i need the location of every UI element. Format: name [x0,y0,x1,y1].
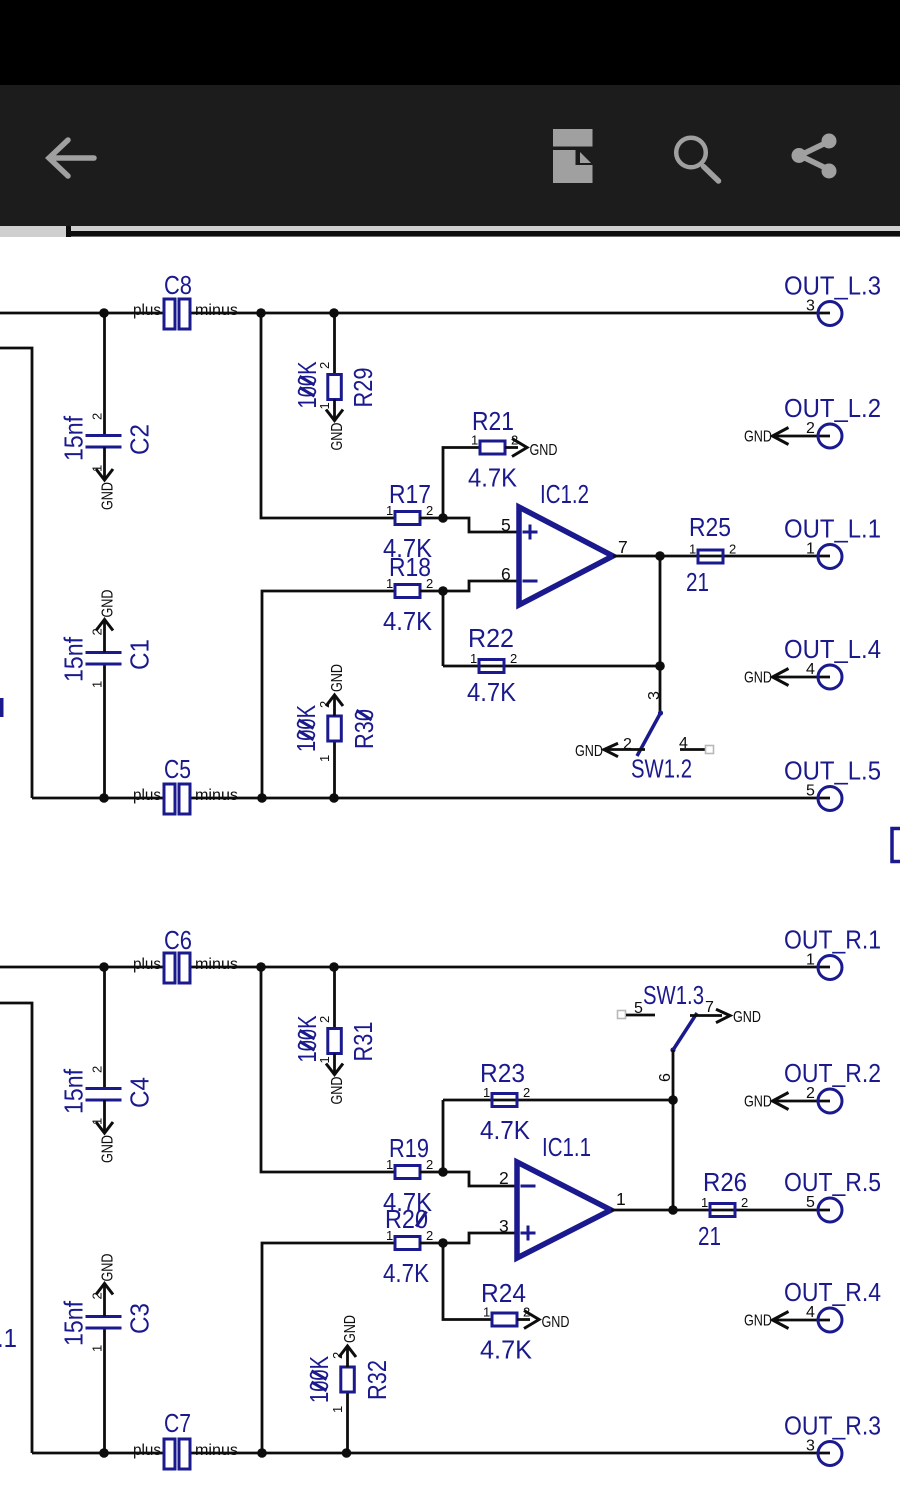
svg-text:GND: GND [542,1314,570,1331]
wire op-amp out to pad R.5 [611,1209,830,1212]
resistor R24 [480,1278,533,1365]
svg-text:1: 1 [689,542,696,557]
node junction R31/rail3 [329,962,339,972]
svg-text:2: 2 [729,542,736,557]
resistor R29 [292,313,378,451]
svg-text:1: 1 [483,1085,490,1100]
svg-text:GND: GND [100,1254,117,1282]
svg-text:plus: plus [133,956,161,973]
resistor R23 [480,1058,531,1145]
svg-text:R26: R26 [703,1167,747,1197]
resistor R26 [698,1167,748,1251]
svg-text:.1: .1 [0,1323,17,1353]
node junction C2/rail1 [99,308,109,318]
svg-text:100K: 100K [304,1356,334,1403]
svg-text:OUT_R.4: OUT_R.4 [784,1277,881,1307]
pages icon [553,129,593,183]
switch SW1.3 [618,980,762,1053]
svg-text:GND: GND [733,1009,761,1026]
wire R20 branch from rail4 [262,1243,395,1453]
svg-text:3: 3 [806,298,815,315]
svg-text:C4: C4 [125,1077,155,1108]
wire R17 to op-amp pin5 [420,518,519,532]
node junction branch/rail2 [257,793,267,803]
svg-text:5: 5 [634,1000,643,1017]
node junction R32/rail4 [342,1448,352,1458]
node junction C4/rail3 [99,962,109,972]
capacitor C7 [133,1408,238,1469]
svg-text:R24: R24 [481,1278,526,1308]
svg-text:1: 1 [483,1305,490,1320]
resistor R20 [383,1204,433,1288]
svg-text:3: 3 [646,691,663,700]
pad OUT_R.3 [784,1411,881,1466]
capacitor C2 [59,313,155,510]
wire R23 row [443,1099,673,1102]
svg-text:OUT_L.3: OUT_L.3 [784,271,881,301]
svg-text:2: 2 [90,1292,105,1299]
svg-text:GND: GND [100,590,117,618]
svg-text:IC1.1: IC1.1 [542,1132,591,1162]
svg-text:1: 1 [330,1406,345,1413]
toolbar [0,85,900,226]
wire top rail OUT_R.1 [0,966,830,969]
svg-text:2: 2 [806,420,815,437]
svg-text:C2: C2 [125,424,155,455]
wire R22 row [443,665,660,668]
svg-text:R18: R18 [389,552,431,582]
svg-text:2: 2 [426,1228,433,1243]
svg-text:GND: GND [744,1094,772,1111]
svg-text:15nf: 15nf [59,636,89,682]
svg-text:7: 7 [705,999,714,1016]
pad OUT_L.5 [784,756,881,811]
resistor R32 [304,1315,392,1453]
wire top rail OUT_L.3 [0,312,830,315]
resistor R18 [383,552,433,636]
pad OUT_R.4 [744,1277,881,1332]
svg-text:4.7K: 4.7K [383,1258,430,1288]
capacitor C3 [59,1254,155,1454]
svg-text:3: 3 [499,1216,509,1236]
svg-text:plus: plus [133,787,161,804]
svg-text:R31: R31 [348,1022,378,1062]
svg-text:R32: R32 [362,1360,392,1400]
svg-text:1: 1 [806,952,815,969]
svg-text:OUT_R.1: OUT_R.1 [784,925,881,955]
svg-text:1: 1 [386,503,393,518]
svg-text:2: 2 [90,628,105,635]
pad OUT_L.2 [744,393,881,448]
op-amp IC1.1 [499,1132,626,1258]
svg-text:4: 4 [806,661,815,678]
capacitor C5 [133,754,238,814]
node junction R23 right [668,1095,678,1105]
wire R18 branch from rail2 [262,591,395,798]
node junction R29/rail1 [329,308,339,318]
svg-text:4.7K: 4.7K [480,1115,531,1145]
svg-text:2: 2 [90,1066,105,1073]
svg-text:15nf: 15nf [59,1068,89,1114]
svg-text:C3: C3 [125,1303,155,1334]
pad OUT_R.1 [784,925,881,980]
svg-text:15nf: 15nf [59,1300,89,1346]
node junction C1/rail2 [99,793,109,803]
op-amp IC1.2 [501,479,628,605]
wire SW1.3 to output node [672,1050,675,1210]
svg-text:15nf: 15nf [59,415,89,461]
node junction R22/SW [655,661,665,671]
resistor R21 [468,406,518,493]
node junction R17/R21 [438,513,448,523]
resistor R17 [383,479,433,563]
svg-text:4.7K: 4.7K [383,606,433,636]
schematic frame top border [68,231,900,237]
svg-text:1: 1 [386,576,393,591]
svg-text:GND: GND [744,670,772,687]
search icon [676,138,718,181]
svg-text:2: 2 [623,736,632,753]
svg-text:4.7K: 4.7K [468,463,518,493]
svg-text:OUT_L.4: OUT_L.4 [784,634,881,664]
svg-text:1: 1 [90,1118,105,1125]
resistor R31 [292,967,378,1105]
pad OUT_R.5 [784,1167,881,1222]
svg-text:7: 7 [618,537,628,557]
svg-text:OUT_R.2: OUT_R.2 [784,1058,881,1088]
svg-text:OUT_R.5: OUT_R.5 [784,1167,881,1197]
pad OUT_L.4 [744,634,881,689]
wire R21 branch [443,448,480,519]
svg-text:C7: C7 [164,1408,191,1438]
svg-text:4: 4 [806,1304,815,1321]
svg-text:R19: R19 [389,1133,429,1163]
svg-text:GND: GND [744,1313,772,1330]
capacitor C8 [133,270,238,329]
node junction branch/rail1 [256,308,266,318]
node junction out R [668,1205,678,1215]
switch SW1.2 [575,666,714,784]
svg-text:plus: plus [133,302,161,319]
svg-text:6: 6 [501,564,511,584]
svg-text:100K: 100K [291,705,321,752]
svg-text:2: 2 [510,651,517,666]
wire branch rail3 to R19 [261,967,395,1172]
wire R20 to op-amp pin3 [420,1233,517,1243]
pad OUT_R.2 [744,1058,881,1113]
gnd arrow R21 [505,439,558,460]
svg-text:OUT_L.5: OUT_L.5 [784,756,881,786]
svg-text:4.7K: 4.7K [467,677,517,707]
svg-text:OUT_L.1: OUT_L.1 [784,514,881,544]
status bar [0,0,900,85]
svg-text:R21: R21 [472,406,514,436]
svg-text:minus: minus [195,956,238,973]
share icon [792,134,837,179]
svg-text:1: 1 [806,541,815,558]
svg-text:C8: C8 [164,270,192,300]
schematic frame corner tick [66,226,71,237]
resistor R19 [383,1133,433,1217]
node junction branch/rail3 [256,962,266,972]
svg-text:2: 2 [426,503,433,518]
svg-text:2: 2 [426,576,433,591]
wire out branch down [659,556,662,666]
svg-text:GND: GND [100,482,117,510]
wire R19 to op-amp pin2 [420,1172,517,1186]
gnd arrow R24 [517,1311,570,1332]
svg-text:2: 2 [499,1168,509,1188]
svg-text:R22: R22 [468,623,514,653]
svg-text:OUT_R.3: OUT_R.3 [784,1411,881,1441]
svg-text:C6: C6 [164,925,192,955]
svg-text:2: 2 [806,1085,815,1102]
svg-text:R17: R17 [389,479,431,509]
svg-text:SW1.2: SW1.2 [631,754,692,784]
svg-text:21: 21 [686,567,709,597]
svg-text:100K: 100K [292,361,322,408]
svg-text:1: 1 [470,651,477,666]
svg-text:6: 6 [657,1073,674,1082]
svg-text:minus: minus [195,302,238,319]
connector bracket right edge [892,829,900,862]
node junction R30/rail2 [329,793,339,803]
svg-text:2: 2 [741,1195,748,1210]
svg-text:4: 4 [679,735,688,752]
svg-text:1: 1 [90,465,105,472]
svg-text:1: 1 [386,1157,393,1172]
wire R24 branch [443,1243,492,1320]
svg-text:C1: C1 [125,639,155,670]
svg-text:5: 5 [806,783,815,800]
net stub left edge [0,698,4,717]
svg-text:GND: GND [744,429,772,446]
node junction branch/rail4 [257,1448,267,1458]
capacitor C4 [59,967,155,1163]
svg-text:IC1.2: IC1.2 [540,479,589,509]
svg-text:plus: plus [133,1442,161,1459]
node junction R18/R22 [438,586,448,596]
svg-text:SW1.3: SW1.3 [643,980,704,1010]
wire R18 to op-amp pin6 [420,581,519,591]
strip below toolbar [0,226,900,237]
svg-text:1: 1 [701,1195,708,1210]
node junction R20/R24 [438,1238,448,1248]
svg-text:2: 2 [90,413,105,420]
svg-text:1: 1 [616,1189,626,1209]
svg-text:GND: GND [575,743,603,760]
svg-text:C5: C5 [164,754,191,784]
svg-text:OUT_L.2: OUT_L.2 [784,393,881,423]
svg-text:2: 2 [523,1085,530,1100]
svg-text:1: 1 [90,681,105,688]
svg-text:100K: 100K [292,1015,322,1062]
wire R22 to R18 node [442,591,445,666]
wire bottom rail OUT_L.5 [32,797,830,800]
pad OUT_L.1 [784,514,881,569]
svg-text:R25: R25 [689,512,731,542]
svg-text:GND: GND [530,442,558,459]
wire op-amp out to pad L.1 [613,555,830,558]
node junction C3/rail4 [99,1448,109,1458]
svg-text:3: 3 [806,1438,815,1455]
svg-text:1: 1 [317,755,332,762]
svg-text:5: 5 [806,1194,815,1211]
resistor R25 [686,512,736,597]
resistor R30 [291,664,379,798]
svg-text:R23: R23 [480,1058,525,1088]
wire R23 left down [442,1100,445,1172]
svg-text:1: 1 [386,1228,393,1243]
svg-text:minus: minus [195,787,238,804]
svg-text:4.7K: 4.7K [480,1335,533,1365]
resistor R22 [467,623,517,707]
node junction R19/R23 [438,1167,448,1177]
svg-text:1: 1 [90,1345,105,1352]
svg-text:GND: GND [329,1077,346,1105]
svg-text:R29: R29 [348,368,378,408]
back arrow icon [49,140,94,176]
wire left entry to left bus lower [0,1003,32,1453]
svg-text:1: 1 [471,433,478,448]
pad OUT_L.3 [784,271,881,326]
svg-text:GND: GND [329,664,346,692]
svg-text:GND: GND [329,423,346,451]
capacitor C1 [59,590,155,799]
svg-text:GND: GND [100,1135,117,1163]
node junction out L [655,551,665,561]
svg-text:minus: minus [195,1442,238,1459]
wire bottom rail OUT_R.3 [32,1452,830,1455]
svg-text:GND: GND [342,1315,359,1343]
wire left entry to left bus [0,348,32,798]
wire branch rail1 to R17 [261,313,395,518]
capacitor C6 [133,925,238,983]
svg-text:2: 2 [426,1157,433,1172]
svg-text:5: 5 [501,515,511,535]
svg-text:21: 21 [698,1221,721,1251]
